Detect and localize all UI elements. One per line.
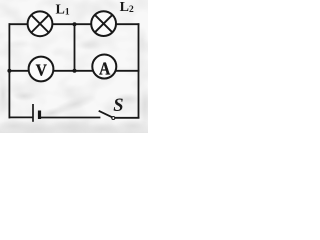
svg-text:A: A	[99, 59, 110, 79]
svg-text:S: S	[113, 96, 123, 116]
svg-text:V: V	[36, 62, 47, 80]
